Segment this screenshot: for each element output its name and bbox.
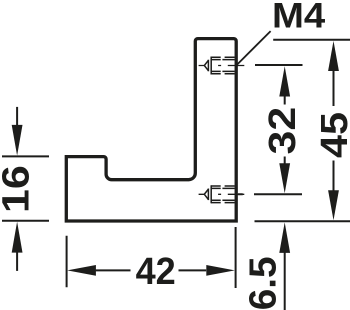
svg-text:45: 45 xyxy=(314,112,350,158)
svg-text:16: 16 xyxy=(0,165,37,213)
svg-text:42: 42 xyxy=(136,249,176,292)
svg-text:32: 32 xyxy=(260,107,303,155)
svg-text:6.5: 6.5 xyxy=(242,256,285,310)
svg-text:M4: M4 xyxy=(272,0,326,35)
